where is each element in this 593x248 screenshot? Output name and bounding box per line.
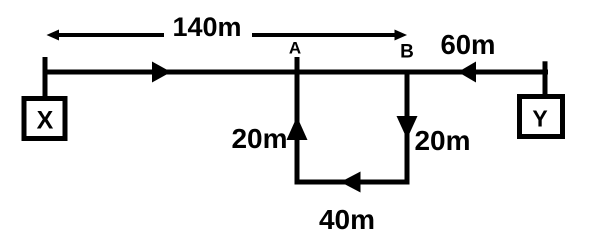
svg-text:20m: 20m — [231, 123, 287, 154]
svg-text:B: B — [400, 42, 414, 63]
svg-text:X: X — [37, 107, 54, 135]
svg-text:40m: 40m — [319, 204, 375, 235]
svg-text:20m: 20m — [414, 125, 470, 156]
svg-text:A: A — [289, 39, 301, 58]
svg-text:Y: Y — [532, 106, 547, 132]
svg-text:140m: 140m — [172, 12, 241, 42]
svg-text:60m: 60m — [440, 29, 495, 60]
